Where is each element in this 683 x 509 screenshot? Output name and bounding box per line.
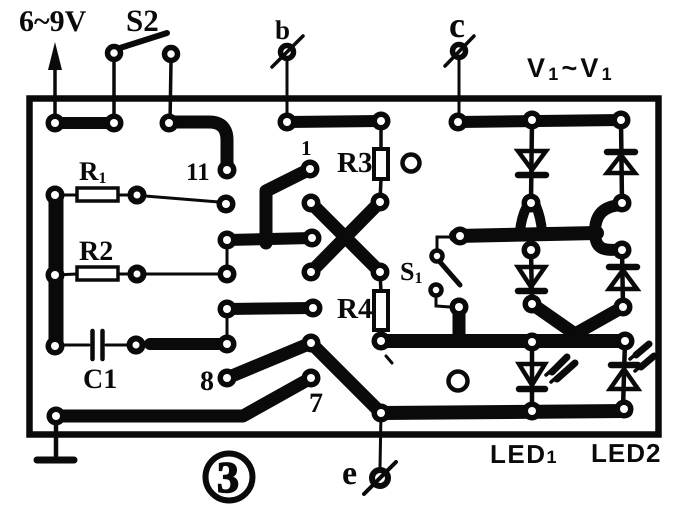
terminal pad b <box>272 36 303 67</box>
wire R1 to pad <box>145 196 219 202</box>
LED2 emission arrows <box>630 344 654 371</box>
pad C3 <box>302 194 321 213</box>
resistor R2 <box>55 267 130 280</box>
trace fork left prong b <box>536 206 542 232</box>
trace bottom-left bus to pad7 <box>56 378 311 416</box>
pad A7 <box>523 111 542 130</box>
pad B1 <box>218 161 237 180</box>
svg-text:R2: R2 <box>79 236 113 267</box>
pad D2 <box>303 229 322 248</box>
pad L1 <box>218 369 237 388</box>
trace LED bottom bus <box>381 411 626 413</box>
ring pad C1 <box>130 339 143 352</box>
wire S2 left to board <box>112 61 116 123</box>
diode D3 <box>518 267 545 291</box>
pad K1 <box>523 402 542 421</box>
pad L2 <box>302 334 321 353</box>
pad A1 <box>46 114 65 133</box>
pad B2 <box>301 160 320 179</box>
power supply arrow <box>48 42 62 123</box>
pad H2 <box>218 335 237 354</box>
resistor R1 <box>55 188 130 201</box>
diode D4 wire <box>622 250 623 305</box>
trace top-right bus <box>458 120 621 122</box>
LED2 wire <box>623 341 625 409</box>
pad I2 <box>614 298 633 317</box>
pad F2 <box>613 194 632 213</box>
pad holes <box>51 116 629 420</box>
trace S1 pad down to bus <box>453 307 466 337</box>
trace mid-right bus <box>456 233 597 236</box>
svg-text:7: 7 <box>309 388 323 419</box>
pads <box>46 111 635 426</box>
pad A6 <box>449 113 468 132</box>
switch S2 <box>108 33 178 61</box>
pad F1 <box>522 194 541 213</box>
pad E3 <box>302 263 321 282</box>
svg-text:LED2: LED2 <box>591 438 661 468</box>
wire c to board <box>458 59 461 122</box>
svg-text:3: 3 <box>217 453 239 502</box>
trace right C-curve <box>595 205 622 250</box>
pad F3 <box>522 241 541 260</box>
diode D2 <box>607 152 635 173</box>
wire S2 right to board <box>170 62 171 123</box>
trace X cross arm 2 <box>311 202 380 272</box>
svg-text:b: b <box>275 15 290 45</box>
pad A2 <box>105 114 124 133</box>
pad F4 <box>613 241 632 260</box>
stray mark <box>386 356 392 363</box>
pad J1 <box>523 333 542 352</box>
svg-text:8: 8 <box>200 366 214 397</box>
pad A3 <box>160 114 179 133</box>
pad C4 <box>371 193 390 212</box>
svg-text:S2: S2 <box>126 3 159 38</box>
trace top-left <box>55 117 114 129</box>
switch S1 <box>431 237 461 307</box>
terminal pad c <box>445 36 474 66</box>
pad E2 <box>218 265 237 284</box>
trace V right arm <box>575 307 623 334</box>
trace lower horizontal <box>227 308 313 309</box>
pad L5 <box>47 407 66 426</box>
wire link lower pads <box>226 309 229 344</box>
mounting hole 2 <box>449 372 468 391</box>
diode D4 <box>609 267 637 289</box>
svg-text:C1: C1 <box>83 364 117 395</box>
ring pad R1 <box>131 189 144 202</box>
LED LED1 <box>519 364 545 389</box>
resistor R4 <box>374 272 388 341</box>
pad H3 <box>372 332 391 351</box>
diode D1 <box>518 151 546 175</box>
board outline <box>30 99 659 435</box>
pad E1 <box>46 266 65 285</box>
trace pad8 zigzag <box>227 343 381 413</box>
pad A4 <box>278 113 297 132</box>
trace C1 pad to center pad <box>150 338 227 350</box>
pad D1 <box>218 231 237 250</box>
trace elbow from third pad <box>169 122 227 170</box>
wire e to bottom pad <box>380 413 381 468</box>
pad I1 <box>523 295 542 314</box>
LED1 wire <box>530 342 535 411</box>
figure number 3 <box>206 453 253 502</box>
terminal pad e <box>364 462 396 494</box>
pad H5 <box>450 298 469 317</box>
pad A5 <box>372 112 391 131</box>
resistor R3 <box>374 121 388 202</box>
pad C1L <box>46 186 65 205</box>
pad H1 <box>46 337 65 356</box>
trace mid horizontal bus <box>227 238 312 240</box>
svg-text:R3: R3 <box>337 147 372 179</box>
pad J2 <box>616 332 635 351</box>
trace fork left prong a <box>520 206 527 232</box>
pad C2 <box>217 195 236 214</box>
ring pad R2 <box>131 268 144 281</box>
pad L3 <box>302 369 321 388</box>
pad G2 <box>304 299 323 318</box>
pad H4 <box>451 227 470 246</box>
pad E4 <box>371 263 390 282</box>
trace LED top bus <box>381 334 625 348</box>
trace pad1 diagonal to mid bus <box>266 169 310 243</box>
svg-text:R4: R4 <box>337 293 372 325</box>
pad L4 <box>372 404 391 423</box>
diode D1 wire <box>531 120 532 202</box>
svg-text:c: c <box>449 5 465 45</box>
trace X cross arm 1 <box>311 203 380 272</box>
wire b to board <box>286 60 289 122</box>
diode D2 wire <box>621 120 622 203</box>
pad A8 <box>612 111 631 130</box>
wire link mid pads <box>226 240 229 274</box>
wire R2 to pad <box>145 273 220 276</box>
trace left vertical bar <box>49 195 64 346</box>
svg-text:e: e <box>342 455 357 492</box>
svg-text:11: 11 <box>186 159 210 186</box>
pad G1 <box>218 300 237 319</box>
ground symbol <box>37 416 74 460</box>
svg-text:6~9V: 6~9V <box>19 5 87 38</box>
capacitor C1 <box>60 331 128 359</box>
trace b pad to R3 pad <box>287 121 381 122</box>
diode D3 wire <box>531 250 532 304</box>
trace V left arm <box>532 304 575 334</box>
pad K2 <box>615 400 634 419</box>
svg-text:1: 1 <box>301 136 312 160</box>
LED1 emission arrows <box>546 357 575 382</box>
LED LED2 <box>610 365 638 389</box>
mounting hole <box>403 155 420 172</box>
